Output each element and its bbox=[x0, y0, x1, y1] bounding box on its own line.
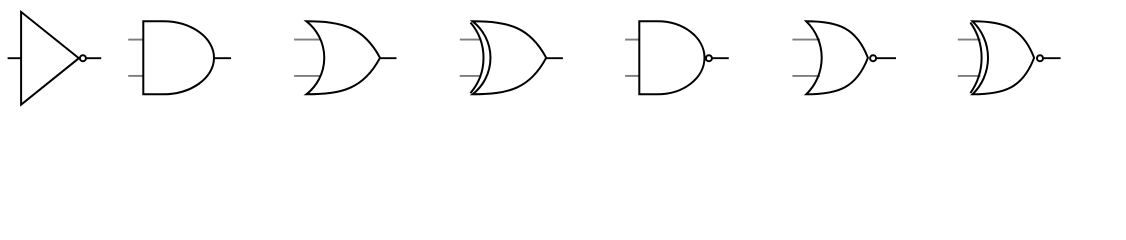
wire: U3 output bbox=[380, 57, 397, 59]
wire: U5 input A bbox=[625, 39, 639, 41]
U4 XOR extra input arc bbox=[471, 23, 484, 94]
U3 OR body bbox=[306, 21, 380, 94]
wire: U6 output bbox=[876, 57, 896, 59]
wire: U1 output bbox=[86, 57, 101, 59]
wire: U6 input B bbox=[792, 75, 820, 77]
U1 triangle body bbox=[21, 12, 79, 105]
U6 OR body (narrow) bbox=[806, 21, 868, 94]
U6 output bubble bbox=[870, 55, 876, 61]
U1 output bubble bbox=[80, 55, 86, 61]
U7 output bubble bbox=[1037, 55, 1043, 61]
U4 OR body bbox=[473, 21, 547, 94]
NOR gate U6 bbox=[792, 21, 896, 94]
U2 AND body (D-shape) bbox=[143, 21, 214, 94]
wire: U4 input A bbox=[460, 39, 481, 41]
wire: U7 input B bbox=[958, 75, 981, 77]
wire: U5 output bbox=[712, 57, 729, 59]
wire: U7 output bbox=[1043, 57, 1061, 59]
U7 XNOR extra input arc bbox=[970, 23, 981, 94]
XNOR gate U7 bbox=[958, 21, 1061, 94]
wire: U2 input B bbox=[128, 75, 143, 77]
XOR gate U4 bbox=[460, 21, 563, 94]
inverter U1 (NOT gate) bbox=[8, 12, 102, 105]
wire: U4 output bbox=[546, 57, 563, 59]
wire: U2 input A bbox=[128, 39, 143, 41]
wire: U1 input bbox=[8, 57, 22, 59]
wire: U2 output bbox=[214, 57, 231, 59]
wire: U4 input B bbox=[460, 75, 481, 77]
wire: U7 input A bbox=[958, 39, 981, 41]
AND gate U2 bbox=[128, 21, 231, 94]
wire: U6 input A bbox=[792, 39, 820, 41]
OR gate U3 bbox=[294, 21, 396, 94]
U5 output bubble bbox=[706, 55, 712, 61]
wire: U3 input B bbox=[294, 75, 321, 77]
wire: U3 input A bbox=[294, 39, 321, 41]
wire: U5 input B bbox=[625, 75, 639, 77]
U7 OR body (narrow) bbox=[973, 21, 1035, 94]
U5 NAND body (D-shape) bbox=[639, 21, 704, 94]
NAND gate U5 bbox=[625, 21, 729, 94]
